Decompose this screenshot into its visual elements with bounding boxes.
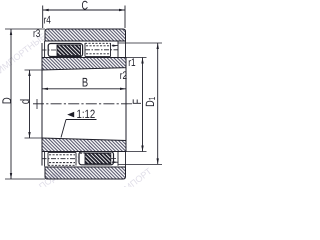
dimension D extensions bbox=[5, 28, 45, 30]
roller axis top-right bbox=[85, 49, 118, 51]
svg-text:1:12: 1:12 bbox=[77, 107, 96, 121]
raceway line bottom extended (F bottom extension) bbox=[126, 151, 147, 153]
flange pointer top bbox=[112, 45, 118, 47]
svg-text:r4: r4 bbox=[44, 15, 51, 27]
D arrow up bbox=[10, 29, 12, 35]
D arrow down bbox=[10, 173, 12, 179]
svg-text:r3: r3 bbox=[33, 28, 40, 40]
svg-text:ИМПОРТНЫЕ: ИМПОРТНЫЕ bbox=[0, 31, 48, 75]
C arrow left bbox=[43, 9, 49, 11]
B extension right bbox=[125, 68, 127, 93]
D1 arrow down bbox=[157, 158, 159, 164]
roller bottom-left (hidden) bbox=[48, 153, 76, 166]
B arrow left bbox=[42, 88, 48, 90]
flange pointer bottom bbox=[112, 161, 118, 163]
roller axis bottom-left bbox=[42, 158, 77, 160]
d arrow down bbox=[28, 132, 30, 138]
taper annotation 1:12 bbox=[67, 112, 74, 118]
D1 arrow up bbox=[157, 43, 159, 49]
svg-text:D1: D1 bbox=[143, 97, 157, 107]
dimension d extensions bbox=[25, 69, 43, 71]
svg-text:r1: r1 bbox=[128, 57, 135, 69]
svg-text:d: d bbox=[18, 99, 32, 104]
inner ring left face / bore small-end edge bbox=[41, 43, 43, 166]
F arrow up bbox=[141, 58, 143, 64]
D1 extension bottom bbox=[119, 163, 163, 165]
roller top-right (hidden) bbox=[85, 43, 111, 57]
svg-text:B: B bbox=[82, 76, 88, 90]
dimension F line bbox=[142, 58, 144, 152]
roller bottom-right (sectioned) bbox=[85, 153, 111, 164]
C arrow right bbox=[119, 9, 125, 11]
roller pocket bottom-right bbox=[79, 152, 114, 165]
svg-text:C: C bbox=[81, 0, 88, 12]
taper leader bbox=[61, 120, 66, 138]
C extension left bbox=[42, 6, 44, 29]
cage side band bottom-left bbox=[44, 152, 46, 167]
F arrow down bbox=[141, 146, 143, 152]
cage side band top-left bbox=[44, 41, 46, 58]
D1 extension top bbox=[119, 42, 163, 44]
B arrow right bbox=[120, 88, 126, 90]
watermark bbox=[0, 31, 154, 197]
bearing axis center line bbox=[33, 103, 133, 105]
retainer block bottom-right bbox=[117, 152, 119, 166]
inner ring right face / bore large-end edge bbox=[125, 58, 127, 152]
roller pocket top-left bbox=[48, 44, 82, 57]
retainer block top-right bbox=[117, 41, 119, 57]
svg-text:D: D bbox=[0, 97, 14, 104]
dimension D line bbox=[10, 29, 12, 179]
B extension left bbox=[41, 70, 43, 93]
d arrow up bbox=[28, 70, 30, 76]
dimension C line bbox=[43, 9, 125, 11]
dimension D1 line bbox=[157, 43, 159, 164]
C extension right bbox=[124, 6, 126, 29]
roller axis top-left bbox=[42, 49, 58, 51]
roller top-left (sectioned) bbox=[57, 45, 81, 56]
axis center tick bbox=[36, 99, 38, 109]
dimension d line bbox=[29, 70, 31, 138]
outer ring bottom section bbox=[45, 167, 126, 179]
raceway line top extended (F top extension) bbox=[126, 57, 147, 59]
inner ring bottom section bbox=[42, 138, 126, 152]
roller axis bottom-right bbox=[111, 158, 119, 160]
svg-text:r2: r2 bbox=[120, 70, 127, 82]
dimension B line bbox=[42, 88, 126, 90]
outer ring top section bbox=[45, 29, 126, 41]
inner ring top section bbox=[42, 58, 126, 71]
